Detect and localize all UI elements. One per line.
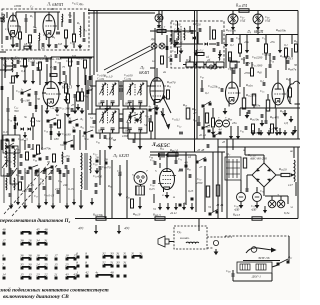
resistor R45	[96, 217, 106, 220]
wire	[158, 11, 160, 15]
svg-text:1000: 1000	[230, 67, 237, 71]
coil L12	[218, 52, 221, 60]
capacitor C35	[148, 118, 150, 122]
wire with arrow	[294, 126, 296, 130]
capacitor C52b	[179, 131, 183, 133]
svg-text:68: 68	[113, 138, 117, 142]
IF transformer ПЧ2 upper	[123, 81, 147, 106]
switch contact	[219, 132, 222, 135]
wire	[119, 176, 121, 190]
resistor R21	[26, 152, 29, 160]
wire with arrow	[45, 199, 47, 202]
wire	[66, 168, 68, 203]
wire	[69, 12, 71, 18]
wire	[104, 150, 106, 218]
electrolytic capacitor C59	[223, 120, 230, 127]
svg-text:44 41: 44 41	[170, 211, 177, 215]
filter block	[216, 62, 224, 67]
wire	[265, 53, 267, 60]
wire	[153, 194, 155, 203]
capacitor (band filter)	[42, 170, 44, 174]
svg-text:31: 31	[116, 252, 120, 256]
wire	[75, 218, 298, 220]
coil L3	[61, 14, 64, 22]
switch contact	[55, 267, 58, 270]
switch contact	[3, 267, 6, 270]
svg-text:9: 9	[85, 252, 87, 256]
wire with arrow	[77, 82, 79, 85]
svg-text:8: 8	[85, 261, 87, 265]
wire	[263, 155, 265, 163]
wire	[239, 53, 241, 57]
svg-text:31: 31	[208, 205, 212, 209]
wire	[128, 138, 300, 140]
ground	[24, 203, 26, 206]
ground	[79, 44, 81, 46]
svg-text:Вкл: Вкл	[288, 255, 292, 260]
switch contact	[6, 146, 9, 149]
wire with arrow (AGC)	[132, 100, 134, 108]
resistor R49	[239, 44, 242, 53]
capacitor C54	[286, 60, 288, 64]
svg-text:С612: С612	[72, 1, 79, 6]
svg-text:33: 33	[110, 252, 114, 256]
svg-text:24: 24	[36, 263, 40, 267]
svg-text:зв.кат.: зв.кат.	[179, 236, 190, 240]
svg-text:R5933к: R5933к	[251, 103, 261, 108]
wire	[64, 113, 66, 150]
wire	[38, 40, 40, 50]
svg-text:Л4: Л4	[246, 30, 252, 35]
wire	[80, 190, 82, 203]
wire	[127, 133, 129, 139]
wire	[280, 196, 282, 200]
connector circle	[213, 240, 218, 245]
wire	[32, 113, 34, 118]
resistor R44	[239, 9, 249, 12]
wire	[88, 12, 155, 14]
switch contact	[213, 135, 216, 138]
ground	[16, 72, 18, 75]
svg-text:42: 42	[85, 271, 89, 275]
wire	[77, 75, 79, 92]
wire	[7, 97, 9, 108]
svg-text:31: 31	[139, 252, 143, 256]
capacitor C41b	[132, 139, 134, 143]
svg-text:R5820: R5820	[278, 167, 287, 172]
switch contact pair	[96, 275, 99, 278]
wire	[217, 139, 219, 218]
svg-text:С1968: С1968	[66, 59, 74, 64]
capacitor C56	[247, 110, 249, 114]
svg-text:8: 8	[76, 261, 78, 265]
svg-text:17: 17	[2, 239, 6, 243]
capacitor C50	[230, 38, 232, 42]
capacitor C18c	[13, 64, 15, 68]
wire	[226, 150, 228, 157]
motor unit box	[237, 262, 272, 273]
svg-text:15: 15	[54, 263, 58, 267]
wire	[83, 12, 85, 37]
wire	[243, 87, 245, 98]
capacitor C43	[198, 28, 200, 32]
capacitor C42	[190, 30, 192, 34]
svg-text:44: 44	[183, 201, 187, 205]
filter block	[196, 62, 204, 67]
wire	[84, 68, 86, 85]
switch contact	[202, 127, 205, 130]
switch contact	[33, 155, 36, 158]
wire	[15, 12, 17, 18]
wire	[275, 108, 277, 124]
resistor R16	[32, 118, 35, 126]
resistor R54	[251, 68, 254, 76]
svg-text:48: 48	[44, 228, 48, 232]
wire	[32, 144, 34, 150]
wire	[212, 152, 214, 212]
ground	[261, 120, 263, 123]
svg-text:5 1: 5 1	[45, 101, 49, 105]
switch contact pair	[21, 258, 24, 261]
wire	[293, 147, 295, 158]
svg-text:4(0): 4(0)	[78, 226, 83, 230]
ground	[156, 105, 158, 108]
wire	[9, 150, 11, 151]
wire	[169, 241, 174, 243]
ground	[58, 131, 60, 134]
capacitor C18	[76, 61, 78, 65]
wire	[177, 47, 179, 54]
resistor R58	[281, 173, 290, 176]
switch contact	[21, 92, 24, 95]
svg-text:18: 18	[36, 254, 40, 258]
wire	[243, 57, 245, 64]
wire dashed	[225, 235, 289, 237]
switch contact	[149, 109, 152, 112]
switch contact	[117, 275, 120, 278]
wire	[232, 270, 234, 273]
switch contact	[84, 132, 87, 135]
ground	[46, 108, 48, 111]
coil L5	[4, 60, 7, 72]
capacitor C69	[62, 173, 64, 177]
svg-text:19: 19	[65, 254, 69, 258]
svg-text:R47100к: R47100к	[225, 28, 237, 33]
capacitor (band filter)	[26, 170, 28, 174]
capacitor C55d	[268, 64, 270, 68]
wire	[21, 98, 23, 103]
wire	[297, 11, 299, 109]
wire	[99, 133, 101, 139]
switch contact	[3, 277, 6, 280]
switch contact	[105, 162, 108, 165]
wire with arrow	[232, 24, 234, 27]
capacitor C65b	[56, 168, 58, 172]
capacitor C76b	[245, 188, 247, 192]
svg-text:14: 14	[2, 273, 6, 277]
switch contact	[124, 256, 127, 259]
switch contact	[29, 167, 32, 170]
wire	[196, 11, 198, 140]
wire	[0, 51, 6, 53]
svg-text:4(9): 4(9)	[124, 226, 129, 230]
wire with arrow	[174, 40, 176, 44]
electrolytic capacitor C77	[253, 193, 262, 202]
switch blade	[197, 157, 206, 162]
wire	[198, 226, 200, 231]
capacitor (band filter)	[18, 170, 20, 174]
wire	[225, 35, 227, 41]
wire	[0, 17, 4, 19]
wire with arrow	[91, 198, 93, 202]
tube V7 (6П14П output)	[160, 169, 175, 190]
switch contact pair	[37, 258, 40, 261]
svg-text:47к: 47к	[246, 61, 251, 65]
wire	[73, 12, 75, 35]
wire	[32, 70, 34, 78]
svg-text:100П: 100П	[14, 4, 22, 8]
svg-text:С710-15: С710-15	[44, 193, 55, 198]
wire	[119, 85, 123, 87]
wire	[24, 67, 26, 78]
wire	[295, 182, 297, 196]
wire with arrow	[212, 128, 214, 132]
wire	[99, 170, 101, 185]
svg-text:6: 6	[2, 254, 4, 258]
wire	[265, 68, 267, 78]
switch contact	[202, 105, 205, 108]
svg-text:52: 52	[102, 261, 106, 265]
capacitor C63b	[264, 120, 266, 124]
switch contact pair	[37, 267, 40, 270]
svg-text:ЭПУ-56: ЭПУ-56	[258, 256, 270, 260]
wire with arrow	[257, 24, 259, 27]
ground	[292, 130, 294, 132]
svg-text:ДОГ-1: ДОГ-1	[251, 275, 261, 279]
switch blade	[203, 101, 211, 106]
capacitor C63	[45, 156, 47, 160]
variable capacitor C45	[155, 14, 163, 22]
resistor R50	[265, 44, 268, 53]
resistor R42	[216, 185, 219, 196]
wire with arrow	[176, 38, 178, 42]
capacitor C27	[49, 124, 51, 128]
wire	[288, 236, 290, 262]
switch blade	[150, 107, 157, 110]
ground	[24, 78, 26, 81]
ground	[81, 108, 83, 111]
switch blade	[65, 140, 73, 143]
tube V4 (6Н2П triode a)	[226, 82, 239, 104]
wire	[12, 85, 14, 100]
svg-text:25: 25	[44, 263, 48, 267]
wire	[91, 75, 93, 114]
switch contact	[71, 145, 74, 148]
tube V3 (6К4П IF amplifier)	[150, 78, 164, 103]
ground	[224, 108, 226, 111]
ground lead	[95, 225, 97, 231]
wire	[61, 21, 63, 27]
svg-text:390: 390	[14, 109, 19, 113]
svg-text:4700: 4700	[244, 71, 251, 75]
arrow	[271, 248, 277, 253]
svg-text:Спд220: Спд220	[208, 84, 217, 89]
svg-text:32: 32	[102, 252, 106, 256]
switch contact pair	[37, 277, 40, 280]
wire	[6, 65, 12, 67]
wire	[88, 113, 96, 115]
capacitor C5	[68, 19, 70, 23]
wire	[87, 80, 89, 110]
wire	[232, 277, 234, 281]
wire	[209, 43, 216, 45]
svg-text:38: 38	[28, 254, 32, 258]
switch contact	[76, 124, 79, 127]
svg-text:28: 28	[104, 158, 108, 162]
wire	[34, 12, 36, 28]
capacitor C26	[70, 108, 72, 112]
wire	[109, 133, 111, 144]
wire with arrow	[162, 108, 164, 114]
svg-text:47: 47	[71, 103, 75, 107]
resistor R63	[271, 124, 274, 133]
capacitor C4	[56, 31, 60, 33]
switch contact	[51, 166, 54, 169]
core line	[9, 152, 11, 170]
ground	[65, 96, 67, 99]
wire	[156, 68, 158, 78]
switch contact	[196, 161, 199, 164]
wire	[52, 168, 54, 203]
tube V6 (clipped at edge)	[287, 81, 300, 104]
resistor R51	[229, 52, 232, 61]
wire	[237, 126, 239, 133]
svg-text:С511000: С511000	[252, 63, 263, 68]
switch contact	[55, 258, 58, 261]
switch contact	[86, 275, 89, 278]
svg-text:31: 31	[153, 207, 157, 211]
coil L25	[13, 178, 16, 190]
svg-text:31: 31	[44, 239, 48, 243]
capacitor C61	[19, 154, 21, 158]
ground	[284, 110, 286, 113]
wire with arrow	[139, 197, 141, 206]
svg-text:Др1: Др1	[78, 2, 84, 7]
wire	[221, 152, 223, 212]
switch contact	[124, 265, 127, 268]
capacitor C57c	[220, 88, 222, 92]
ground	[66, 203, 68, 206]
coil L24	[5, 178, 8, 190]
resistor R1	[19, 32, 22, 39]
coil T1 primary upper	[80, 153, 83, 170]
wire with arrow	[237, 133, 239, 136]
capacitor C49c	[234, 64, 236, 68]
wire	[73, 43, 75, 48]
svg-text:43: 43	[222, 140, 226, 144]
wire	[276, 174, 281, 176]
ground	[59, 80, 61, 82]
wire	[127, 122, 129, 133]
wire	[198, 219, 200, 227]
svg-text:+: +	[225, 116, 227, 120]
resistor R4	[73, 34, 76, 42]
switch contact	[287, 261, 290, 264]
ground	[80, 203, 82, 206]
wire	[277, 70, 279, 83]
wire	[197, 32, 199, 44]
wire	[67, 88, 69, 94]
wire	[41, 105, 43, 150]
wire	[51, 56, 94, 58]
tuning indicator arrow	[161, 111, 168, 127]
wire	[17, 168, 19, 203]
capacitor C40	[103, 135, 105, 139]
tuning indicator arrow	[163, 97, 171, 113]
wire	[19, 26, 21, 32]
svg-text:6Н2П: 6Н2П	[254, 30, 264, 34]
resistor R52	[285, 48, 288, 57]
svg-text:47: 47	[199, 165, 203, 169]
svg-text:R6847к: R6847к	[287, 67, 297, 72]
svg-text:Л4б: Л4б	[256, 70, 262, 75]
wire	[109, 106, 111, 109]
switch contact pair	[103, 256, 106, 259]
resistor R57	[243, 158, 246, 168]
capacitor C2	[24, 18, 26, 22]
ground	[52, 203, 54, 206]
svg-text:6: 6	[76, 252, 78, 256]
wire	[154, 28, 156, 139]
wire	[60, 57, 92, 59]
UKW unit enclosure (dashed box)	[2, 9, 89, 50]
svg-text:м: м	[172, 195, 175, 199]
switch contact pair	[21, 243, 24, 246]
capacitor C15	[16, 60, 18, 64]
capacitor C70	[153, 161, 155, 165]
switch blade	[48, 118, 56, 121]
wire	[7, 130, 9, 135]
svg-text:39: 39	[28, 263, 32, 267]
wire with arrow	[225, 40, 227, 44]
wire with arrow	[175, 203, 177, 207]
ground	[195, 50, 197, 53]
capacitor C57	[260, 114, 262, 118]
switch contact	[64, 142, 67, 145]
resistor R64b	[289, 88, 292, 97]
ground	[215, 249, 217, 252]
capacitor C17	[45, 58, 47, 62]
wire	[50, 57, 52, 82]
wire	[65, 75, 67, 84]
switch contact	[209, 213, 212, 216]
svg-text:R48100к: R48100к	[275, 28, 287, 33]
capacitor C9	[41, 43, 43, 47]
resistor R23	[19, 182, 22, 190]
coil T1 primary lower	[80, 172, 83, 189]
svg-text:19: 19	[44, 254, 48, 258]
ground	[166, 192, 168, 195]
svg-text:R44 474: R44 474	[235, 4, 247, 9]
wire	[251, 62, 253, 68]
wire	[11, 57, 13, 60]
resistor R2	[29, 35, 32, 43]
wire	[232, 11, 234, 15]
svg-text:23к: 23к	[232, 121, 237, 125]
resistor R29	[37, 145, 40, 154]
wire with arrow	[191, 203, 193, 207]
IF transformer ПЧ1 upper	[96, 81, 119, 106]
